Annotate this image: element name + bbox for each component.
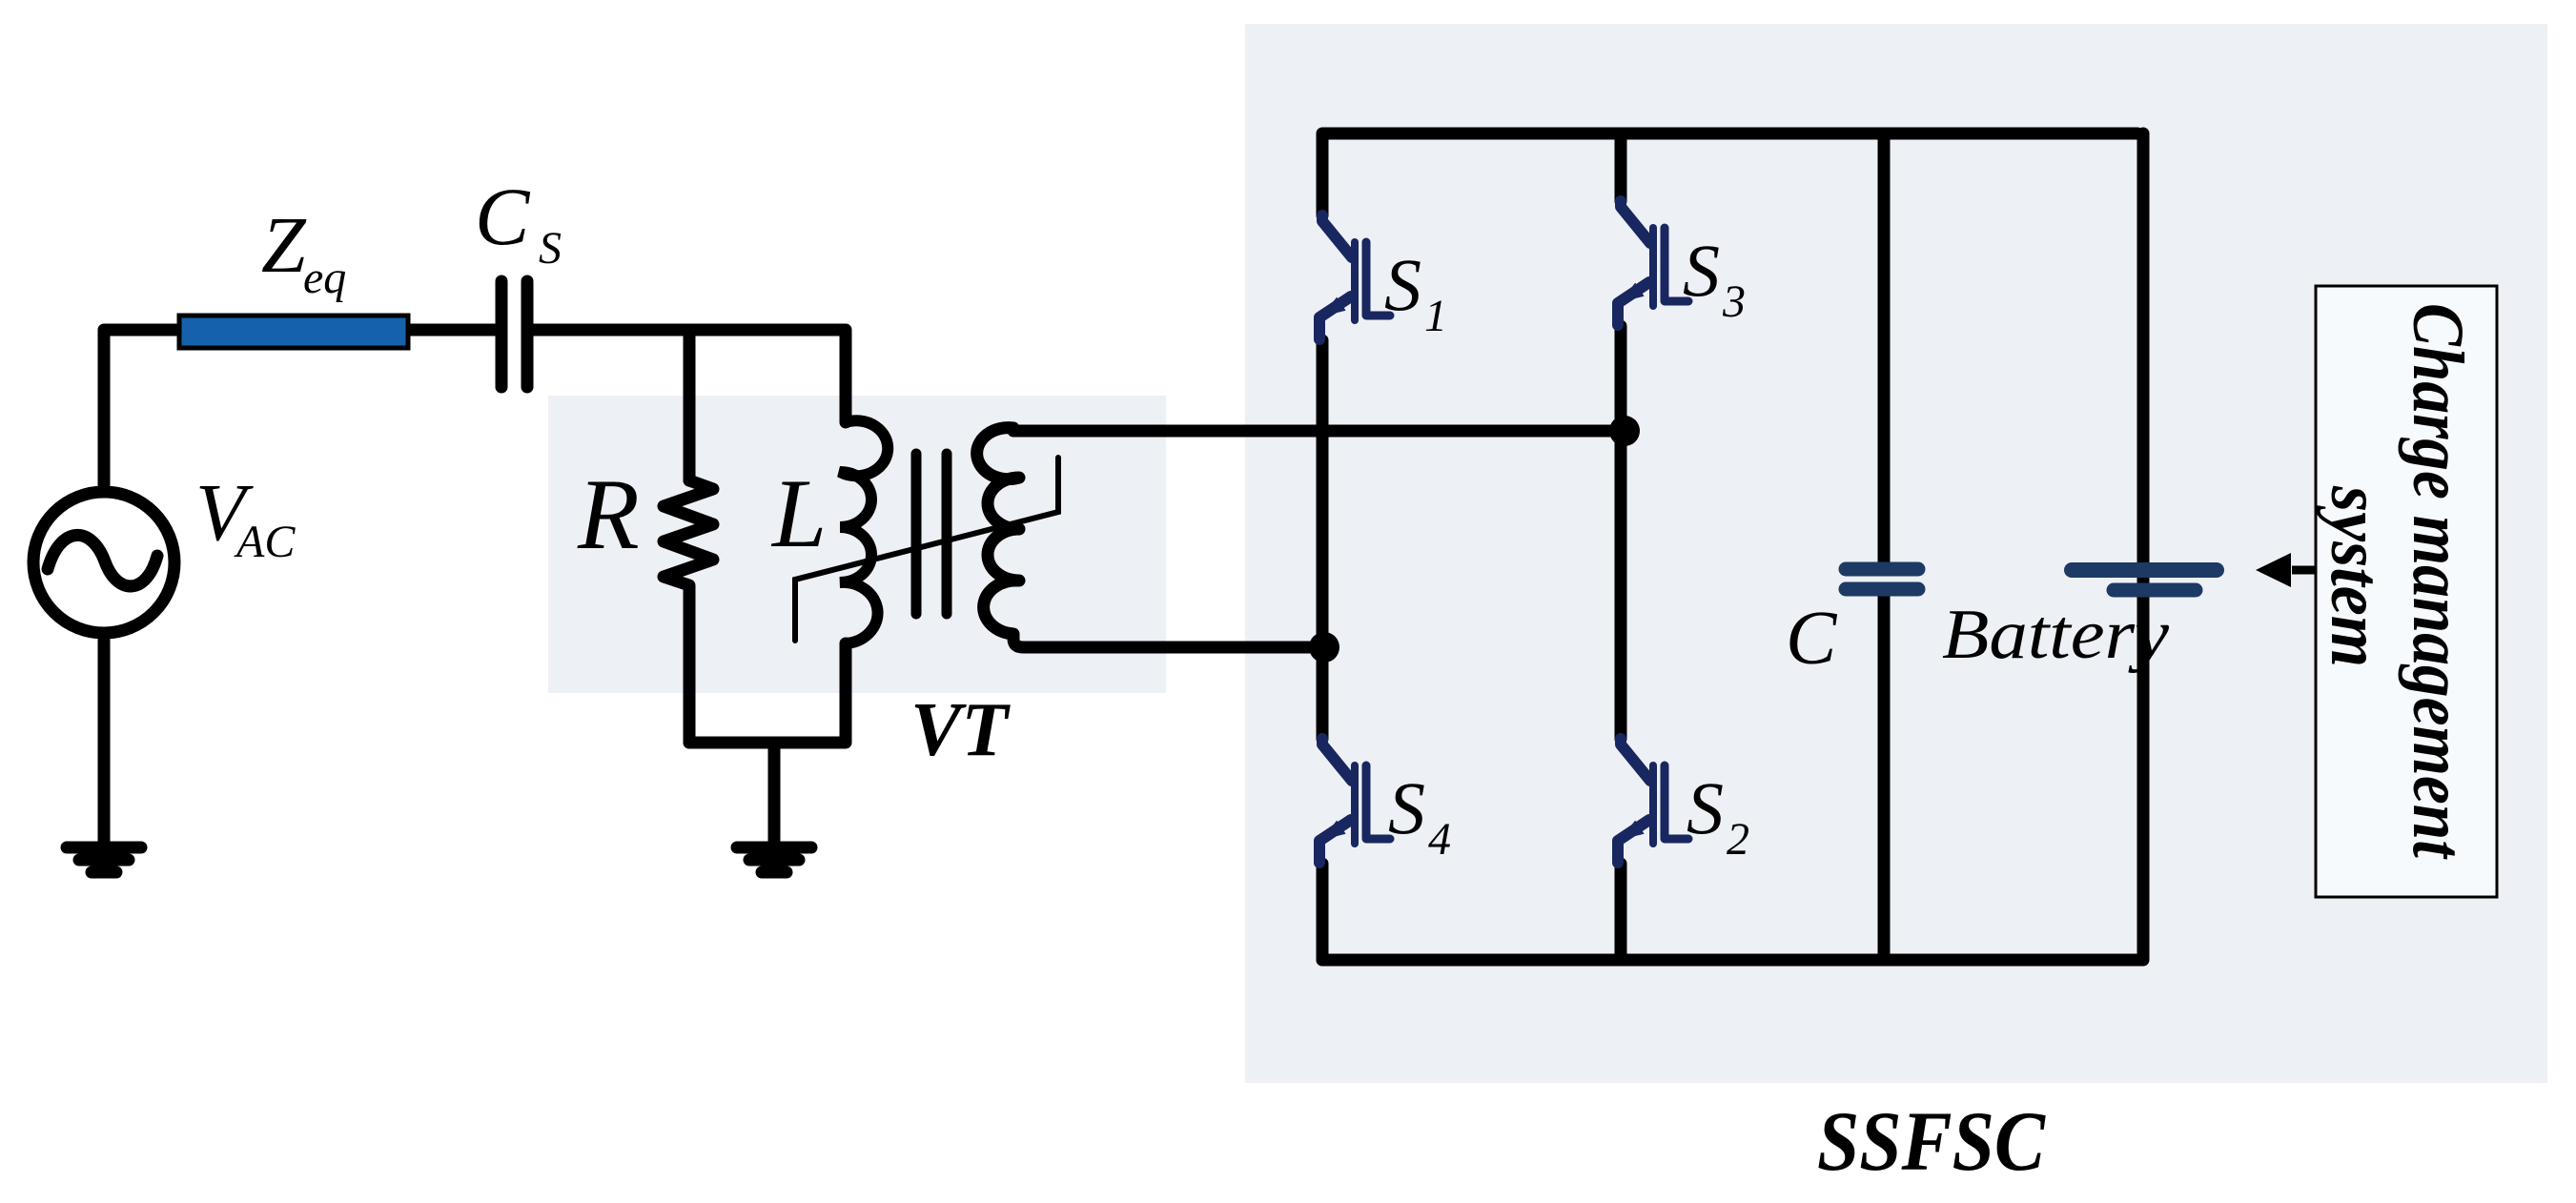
svg-text:SSFSC: SSFSC [1817,1095,2046,1189]
svg-text:Battery: Battery [1942,596,2169,674]
svg-text:Z: Z [261,201,307,290]
svg-text:S: S [539,223,562,274]
svg-text:VT: VT [910,688,1011,772]
svg-text:R: R [577,459,640,570]
svg-text:1: 1 [1424,291,1447,341]
svg-text:C: C [475,171,531,262]
svg-text:system: system [2316,485,2396,667]
svg-text:C: C [1786,597,1838,681]
svg-text:S: S [1683,229,1720,312]
svg-text:S: S [1388,766,1425,849]
svg-text:S: S [1384,243,1421,326]
svg-text:3: 3 [1722,276,1746,327]
svg-text:4: 4 [1428,814,1451,865]
svg-text:L: L [770,459,827,568]
svg-text:Charge management: Charge management [2398,303,2478,861]
svg-text:2: 2 [1727,814,1749,865]
svg-text:eq: eq [303,253,346,303]
svg-text:S: S [1687,766,1724,849]
svg-text:AC: AC [234,517,296,567]
